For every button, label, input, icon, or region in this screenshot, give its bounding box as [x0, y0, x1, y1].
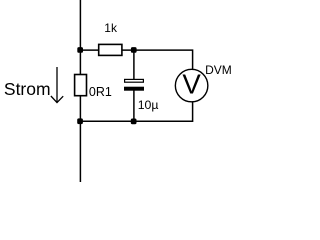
wire: capacitor branch upper — [133, 50, 135, 80]
node C junction dot (bottom left) — [77, 118, 83, 124]
voltmeter U1 (DVM) circle — [175, 69, 208, 102]
wire: capacitor branch lower — [133, 90, 135, 121]
wire: left vertical rail top segment — [79, 0, 81, 75]
capacitor C1 top plate — [125, 79, 144, 82]
wire: bottom horizontal net — [80, 102, 192, 122]
node A junction dot (top left) — [77, 47, 83, 53]
resistor R1 (1k) body — [99, 44, 122, 55]
svg-text:10µ: 10µ — [138, 98, 159, 112]
node D junction dot (bottom right) — [131, 119, 137, 125]
svg-text:1k: 1k — [104, 21, 118, 35]
svg-text:DVM: DVM — [205, 63, 232, 77]
wire: top horizontal net to DVM corner — [80, 50, 192, 70]
node B junction dot (top right) — [131, 47, 137, 53]
svg-text:Strom: Strom — [4, 79, 51, 99]
svg-text:V: V — [182, 68, 201, 99]
current direction arrow — [51, 67, 63, 103]
capacitor C1 bottom plate (solid) — [124, 87, 144, 91]
svg-text:0R1: 0R1 — [89, 85, 112, 99]
wire: left vertical rail bottom segment — [79, 96, 81, 182]
resistor R2 (0R1) body — [75, 75, 87, 96]
